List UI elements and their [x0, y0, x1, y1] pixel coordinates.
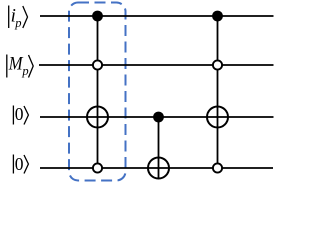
CNOT target column A wire 3 [87, 107, 108, 128]
wire |0> (qubit line 4) [40, 167, 273, 169]
wire |i_p> (qubit line 1) [40, 15, 274, 17]
label ket |i_p> : bar [8, 6, 10, 29]
CNOT target column B wire 4 [148, 158, 169, 179]
wire: column C vertical connector [217, 16, 219, 168]
control dot (filled) column A wire 1 [92, 11, 103, 22]
label ket |i_p> : angle bracket [23, 6, 28, 28]
label ket |M_p> : angle bracket [29, 55, 34, 78]
svg-text:0: 0 [15, 104, 24, 124]
label ket |0> wire 3 : bar [12, 106, 14, 125]
svg-text:M: M [8, 54, 24, 75]
wire |0> (qubit line 3) [40, 116, 274, 118]
dashed selection box (blue rounded rect) [69, 3, 126, 181]
wire: column A vertical connector [97, 16, 99, 168]
label ket |0> wire 4 : bar [12, 155, 14, 174]
svg-text:p: p [14, 16, 21, 30]
label ket |0> wire 4 : angle bracket [24, 155, 28, 174]
control dot (filled) column C wire 1 [212, 11, 223, 22]
control (open) column C wire 2 [213, 60, 222, 69]
control (open) column A wire 4 [93, 163, 102, 172]
control (open) column C wire 4 [213, 163, 222, 172]
svg-text:p: p [21, 64, 28, 78]
label ket |M_p> : bar [6, 55, 8, 78]
label ket |0> wire 3 : angle bracket [24, 106, 28, 125]
wire |M_p> (qubit line 2) [39, 64, 274, 66]
control (open) column A wire 2 [93, 60, 102, 69]
control dot (filled) column B wire 3 [153, 112, 164, 123]
CNOT target column C wire 3 [207, 107, 228, 128]
wire: column B vertical connector [158, 117, 160, 179]
svg-text:0: 0 [15, 154, 24, 174]
